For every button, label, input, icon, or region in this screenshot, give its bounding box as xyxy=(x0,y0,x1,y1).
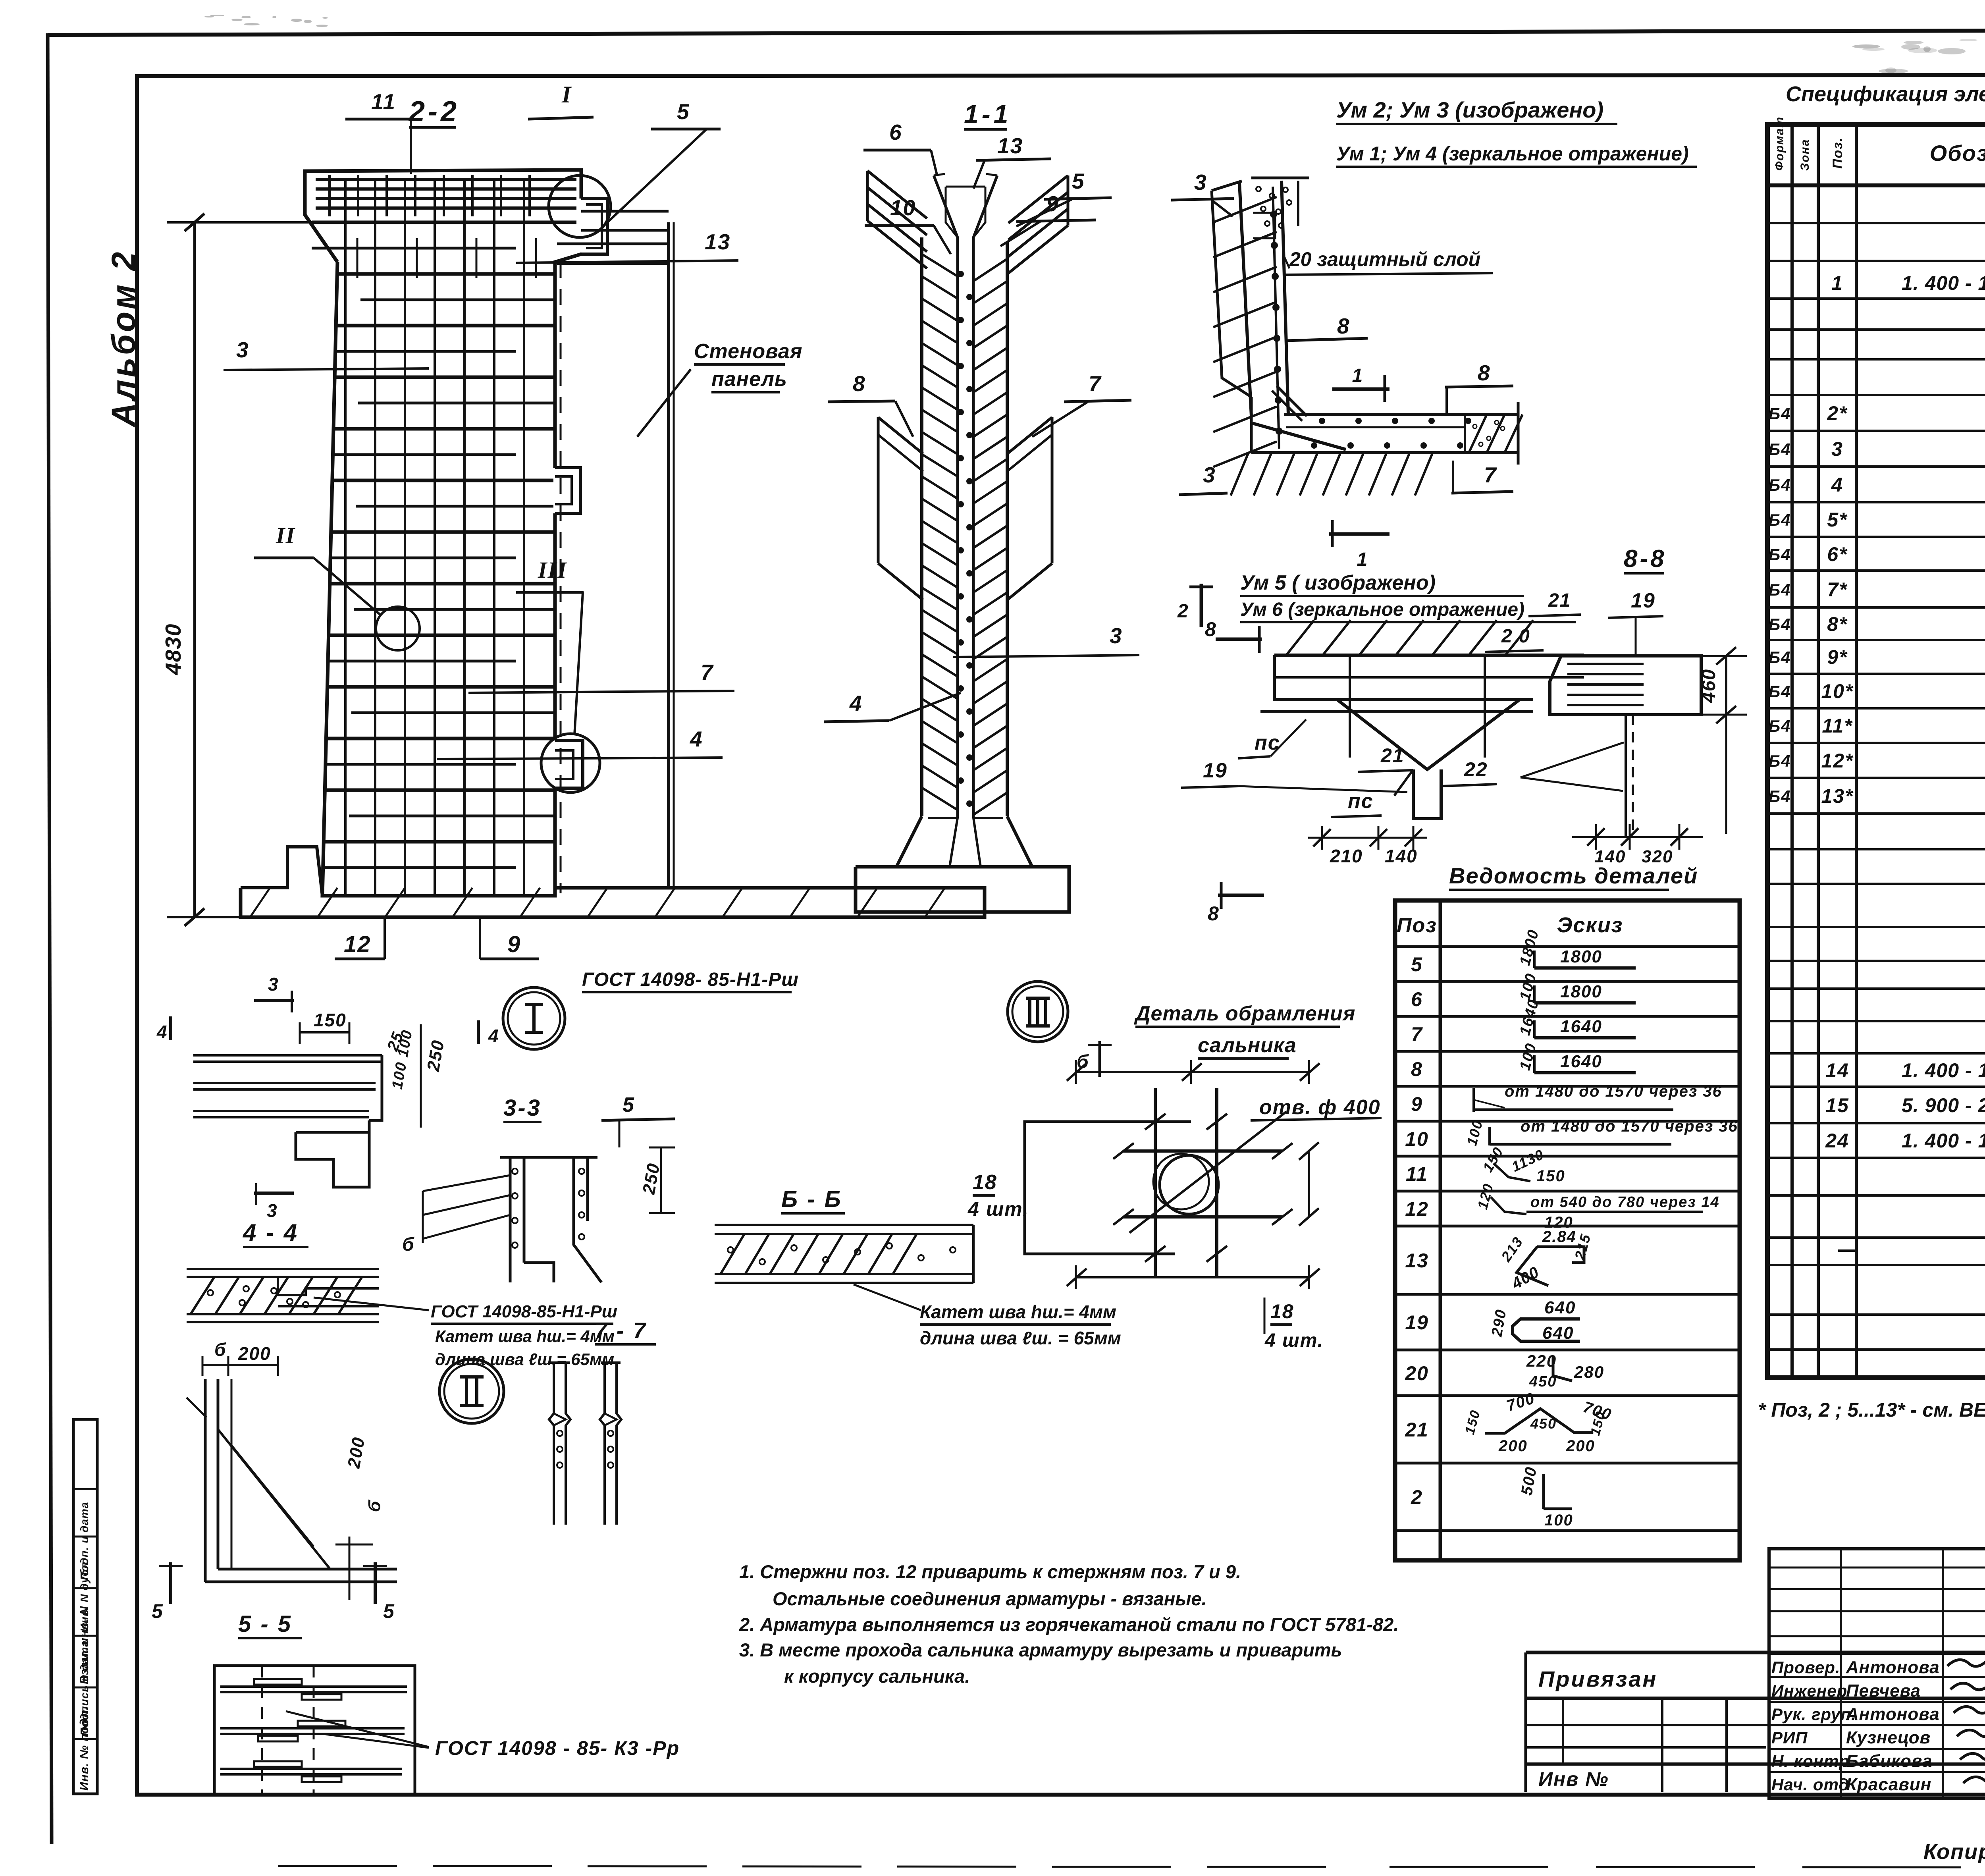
svg-text:4: 4 xyxy=(156,1022,168,1042)
svg-text:7*: 7* xyxy=(1827,578,1848,601)
vedomost table row lines xyxy=(1395,945,1740,948)
column outline 1-1 right strip xyxy=(1006,242,1009,816)
spec table header xyxy=(1767,183,1985,187)
svg-text:19: 19 xyxy=(1631,589,1655,612)
svg-text:9: 9 xyxy=(1411,1093,1423,1115)
section mark 4 left xyxy=(169,1016,172,1040)
svg-text:* Поз, 2 ; 5...13* - см. ВЕДО: * Поз, 2 ; 5...13* - см. ВЕДОМОСТЬ ДЕТАЛ… xyxy=(1758,1398,1985,1421)
svg-text:Б4: Б4 xyxy=(1768,717,1791,735)
spec table column lines xyxy=(1790,125,1794,1378)
salnik top dimension line xyxy=(1076,1071,1309,1073)
svg-text:250: 250 xyxy=(639,1161,663,1196)
hatching right strip 1-1 xyxy=(973,259,1007,281)
svg-text:640: 640 xyxy=(1544,1298,1576,1317)
salnik bottom dim line xyxy=(1076,1276,1309,1278)
svg-text:Катет шва hш.= 4мм: Катет шва hш.= 4мм xyxy=(435,1327,615,1346)
3-3 left leaders xyxy=(423,1175,510,1191)
svg-text:13: 13 xyxy=(997,133,1023,158)
3-3 dim 250 xyxy=(660,1147,662,1213)
svg-text:Н. контр.: Н. контр. xyxy=(1771,1752,1855,1770)
svg-text:Рук. груп.: Рук. груп. xyxy=(1771,1705,1856,1724)
svg-text:100: 100 xyxy=(1544,1512,1573,1529)
svg-text:450: 450 xyxy=(1529,1373,1557,1390)
salnik circles xyxy=(1160,1155,1218,1214)
svg-text:100: 100 xyxy=(1517,971,1540,1002)
svg-text:15: 15 xyxy=(1825,1094,1849,1116)
svg-text:21: 21 xyxy=(1548,590,1571,611)
svg-text:3. В месте прохода сальник: 3. В месте прохода сальника арматуру выр… xyxy=(739,1639,1342,1660)
svg-text:III: III xyxy=(538,557,567,583)
bottom leg of corner detail xyxy=(1284,413,1518,416)
svg-text:140: 140 xyxy=(1385,846,1418,866)
svg-text:150: 150 xyxy=(1462,1408,1483,1436)
svg-text:20: 20 xyxy=(1405,1362,1429,1384)
svg-text:от 1480 до 1570 через 36: от 1480 до 1570 через 36 xyxy=(1505,1083,1722,1100)
svg-text:12: 12 xyxy=(344,931,371,957)
rebar grid horizontal bars corbel xyxy=(316,178,576,181)
svg-text:Антонова: Антонова xyxy=(1846,1658,1940,1677)
svg-text:8: 8 xyxy=(853,371,866,396)
svg-text:460: 460 xyxy=(1698,669,1719,703)
7-7 drawing two posts xyxy=(549,1363,554,1525)
Um5 stem xyxy=(1413,769,1441,819)
Б-Б right plain band end xyxy=(921,1225,921,1283)
svg-text:Антонова: Антонова xyxy=(1846,1704,1940,1724)
panel chamfer wings top right of 1-1 xyxy=(1008,175,1068,223)
base slab under 2-2 xyxy=(241,888,985,917)
svg-text:6*: 6* xyxy=(1827,543,1848,565)
extra short studs top band xyxy=(357,238,358,278)
svg-text:Деталь обрамления: Деталь обрамления xyxy=(1134,1002,1355,1025)
svg-text:Б - Б: Б - Б xyxy=(781,1186,842,1212)
svg-text:19: 19 xyxy=(1203,759,1228,782)
svg-text:2 0: 2 0 xyxy=(1501,626,1530,647)
salnik cross ticks xyxy=(1145,1114,1166,1130)
svg-text:1800: 1800 xyxy=(1560,982,1602,1001)
svg-text:ГОСТ 14098- 85-Н1-Рш: ГОСТ 14098- 85-Н1-Рш xyxy=(582,969,799,990)
svg-text:отв. ф 400: отв. ф 400 xyxy=(1259,1096,1381,1119)
svg-text:пс: пс xyxy=(1348,790,1374,813)
svg-text:II: II xyxy=(276,523,296,548)
svg-text:б: б xyxy=(364,1498,385,1513)
svg-text:Стеновая: Стеновая xyxy=(694,340,802,363)
Б-Б aggregate hatch xyxy=(721,1234,744,1274)
corner rebar detail (5-5 plan) xyxy=(204,1379,207,1582)
svg-text:21: 21 xyxy=(1380,744,1405,767)
svg-text:4: 4 xyxy=(690,727,703,751)
Um5 section marks 8 xyxy=(1216,638,1262,641)
svg-text:8: 8 xyxy=(1208,902,1220,925)
svg-text:Зона: Зона xyxy=(1798,139,1812,171)
svg-text:5*: 5* xyxy=(1827,509,1848,531)
svg-text:2.84: 2.84 xyxy=(1542,1228,1576,1246)
Um5 dims 210 140 xyxy=(1321,826,1323,850)
svg-text:Инженер: Инженер xyxy=(1771,1681,1847,1700)
svg-text:500: 500 xyxy=(1518,1465,1540,1496)
svg-text:2*: 2* xyxy=(1827,402,1848,424)
svg-text:8: 8 xyxy=(1478,361,1491,385)
4-4 sandwich drawing xyxy=(187,1268,379,1270)
svg-text:1. 400 - 15. 81. 110 - 08: 1. 400 - 15. 81. 110 - 08 xyxy=(1902,1059,1985,1082)
dim 150 and ticks xyxy=(300,1031,349,1033)
section mark 1 upper xyxy=(1332,388,1389,391)
spec table outline xyxy=(1767,125,1985,1378)
right end hatched block of leg xyxy=(1464,415,1466,453)
section mark 2 near 1-1 xyxy=(1200,584,1203,627)
svg-text:120: 120 xyxy=(1474,1182,1497,1211)
svg-text:8: 8 xyxy=(1337,314,1350,338)
svg-text:Б4: Б4 xyxy=(1768,440,1791,459)
svg-text:б: б xyxy=(402,1234,415,1255)
section marks 5 xyxy=(169,1562,172,1604)
svg-text:21: 21 xyxy=(1405,1419,1429,1441)
svg-text:Нач. отд: Нач. отд xyxy=(1771,1775,1849,1794)
panel hatch diagonals xyxy=(1213,197,1277,222)
svg-text:5: 5 xyxy=(152,1600,164,1622)
svg-text:13: 13 xyxy=(705,229,730,254)
salnik diagonal leader xyxy=(1129,1112,1286,1233)
svg-text:Б4: Б4 xyxy=(1768,511,1791,529)
svg-text:Формат: Формат xyxy=(1773,116,1786,171)
svg-text:1-1: 1-1 xyxy=(964,99,1011,129)
4-4 aggregate hatch xyxy=(191,1277,214,1314)
svg-text:10: 10 xyxy=(1405,1128,1429,1150)
corner diagonal braces xyxy=(218,1429,330,1568)
svg-text:18: 18 xyxy=(973,1171,997,1194)
svg-text:4: 4 xyxy=(849,691,863,715)
svg-text:13*: 13* xyxy=(1821,785,1854,807)
base slab 1-1 xyxy=(856,867,1069,912)
bottom margin broken line xyxy=(278,1866,1350,1867)
dashed inner face line xyxy=(560,262,562,893)
4-4 right step xyxy=(278,1277,379,1295)
section mark 1 lower xyxy=(1329,532,1389,536)
circle node I on section 2-2 xyxy=(549,175,611,237)
below-leg hatch (supporting panel) xyxy=(1231,453,1248,496)
svg-text:Ведомость деталей: Ведомость деталей xyxy=(1449,863,1698,888)
outer paper border left edge xyxy=(48,33,52,1844)
svg-text:Спецификация элементов монол: Спецификация элементов монолитных участк… xyxy=(1786,82,1985,106)
svg-text:4 шт.: 4 шт. xyxy=(1264,1330,1324,1351)
svg-text:1640: 1640 xyxy=(1560,1052,1602,1071)
svg-text:Подп. и дата: Подп. и дата xyxy=(78,1502,91,1580)
detail bars top-left (gost node) xyxy=(193,1054,382,1057)
left flanking panel hatched band xyxy=(1212,181,1242,191)
wall panel joint strips xyxy=(581,210,669,213)
joint core funnel 1-1 xyxy=(934,175,958,818)
svg-text:Поз.: Поз. xyxy=(1830,137,1845,169)
stamp column left margin xyxy=(73,1419,97,1794)
svg-text:5. 900 - 2 ТМ 90 - 02: 5. 900 - 2 ТМ 90 - 02 xyxy=(1902,1094,1985,1116)
svg-text:7 - 7: 7 - 7 xyxy=(595,1318,647,1343)
svg-text:1: 1 xyxy=(1357,549,1368,570)
outer paper border top edge xyxy=(48,29,1985,35)
circle node II detail xyxy=(439,1359,504,1423)
svg-text:Ум 6 (зеркальное отражени: Ум 6 (зеркальное отражение) xyxy=(1240,599,1524,620)
side wing plate left 1-1 xyxy=(878,417,923,454)
circle node I detail xyxy=(503,987,565,1049)
svg-text:ГОСТ 14098 - 85- К3 -Рр: ГОСТ 14098 - 85- К3 -Рр xyxy=(435,1737,680,1759)
svg-text:от 540 до 780 через 14: от 540 до 780 через 14 xyxy=(1530,1194,1720,1211)
svg-text:Эскиз: Эскиз xyxy=(1557,913,1623,937)
svg-text:6: 6 xyxy=(1411,988,1423,1010)
svg-text:4830: 4830 xyxy=(161,623,185,675)
svg-text:290: 290 xyxy=(1488,1308,1510,1338)
svg-text:Б4: Б4 xyxy=(1768,476,1791,494)
Um5 inner bars xyxy=(1349,655,1351,758)
label b section near III xyxy=(1098,1041,1101,1077)
svg-text:Б4: Б4 xyxy=(1768,615,1791,634)
svg-text:ГОСТ 14098-85-Н1-Рш: ГОСТ 14098-85-Н1-Рш xyxy=(431,1302,617,1321)
8-8 box with horizontal hatch xyxy=(1550,656,1701,715)
svg-text:11*: 11* xyxy=(1822,715,1853,737)
svg-text:9*: 9* xyxy=(1827,646,1848,668)
svg-text:к корпусу сальника.: к корпусу сальника. xyxy=(784,1666,970,1687)
label 18 4sht bottom xyxy=(1264,1298,1266,1334)
svg-text:200: 200 xyxy=(344,1435,368,1470)
svg-text:1800: 1800 xyxy=(1560,947,1602,966)
svg-text:Б4: Б4 xyxy=(1768,580,1791,599)
panel chamfer wings top left of 1-1 xyxy=(867,171,927,218)
svg-text:РИП: РИП xyxy=(1771,1728,1808,1747)
privyazan box xyxy=(1526,1651,1985,1654)
Um5 funnel xyxy=(1322,698,1533,701)
foot flare 1-1 xyxy=(896,816,922,867)
foot of wall leg 2-2 xyxy=(241,847,322,896)
svg-text:4 - 4: 4 - 4 xyxy=(243,1219,299,1246)
svg-text:8-8: 8-8 xyxy=(1624,545,1667,573)
svg-text:б: б xyxy=(1077,1051,1089,1072)
svg-text:Обозначение: Обозначение xyxy=(1930,141,1985,166)
svg-text:I: I xyxy=(561,81,572,108)
svg-text:Альбом 2: Альбом 2 xyxy=(105,250,142,428)
4-4 leader to gost text xyxy=(314,1298,429,1310)
8-8 bottom dims 140 320 xyxy=(1595,824,1597,850)
svg-text:Копировал Подлевская: Копировал Подлевская xyxy=(1923,1840,1985,1864)
corner detail dims xyxy=(349,1537,351,1600)
svg-text:5: 5 xyxy=(383,1600,395,1622)
svg-text:б: б xyxy=(214,1339,226,1360)
weld assembly box (below 5-5) xyxy=(214,1666,415,1795)
Б-Б leader and weld text xyxy=(854,1284,921,1310)
svg-text:от 1480 до 1570 через 36: от 1480 до 1570 через 36 xyxy=(1521,1118,1738,1135)
keyway notch lower (node III) xyxy=(555,740,583,788)
svg-text:11: 11 xyxy=(1406,1163,1428,1185)
svg-text:2: 2 xyxy=(1411,1486,1423,1508)
svg-text:100: 100 xyxy=(1517,1041,1540,1072)
svg-text:3: 3 xyxy=(268,974,279,995)
svg-text:Красавин: Красавин xyxy=(1846,1775,1931,1794)
svg-text:3: 3 xyxy=(1110,623,1123,648)
side wing plate right 1-1 xyxy=(1007,417,1052,454)
svg-text:5 - 5: 5 - 5 xyxy=(238,1611,292,1637)
svg-text:3-3: 3-3 xyxy=(503,1095,542,1121)
svg-text:8: 8 xyxy=(1205,618,1217,640)
svg-text:4: 4 xyxy=(488,1026,499,1046)
svg-text:7: 7 xyxy=(701,660,714,684)
signature table xyxy=(1769,1549,1985,1799)
circle node III on section 2-2 xyxy=(541,734,600,792)
svg-text:3: 3 xyxy=(1194,170,1207,195)
svg-text:9: 9 xyxy=(1046,191,1059,216)
svg-text:280: 280 xyxy=(1574,1363,1604,1381)
svg-text:3: 3 xyxy=(1203,463,1216,487)
svg-text:400: 400 xyxy=(1509,1263,1543,1293)
svg-text:Певчева: Певчева xyxy=(1846,1681,1921,1701)
bottom leg inner line and stud dots xyxy=(1286,426,1465,428)
svg-text:9: 9 xyxy=(507,931,521,957)
bent corner bar diagonal xyxy=(1253,423,1346,449)
svg-text:1. Стержни поз. 12 приварит: 1. Стержни поз. 12 приварить к стержням … xyxy=(739,1561,1241,1582)
svg-text:200: 200 xyxy=(1498,1437,1528,1455)
svg-text:250: 250 xyxy=(423,1038,448,1073)
svg-text:2-2: 2-2 xyxy=(408,96,460,127)
svg-text:150: 150 xyxy=(1536,1167,1565,1185)
svg-text:Б4: Б4 xyxy=(1768,404,1791,423)
svg-text:Б4: Б4 xyxy=(1768,545,1791,564)
svg-text:Б4: Б4 xyxy=(1768,648,1791,667)
svg-text:24: 24 xyxy=(1825,1130,1849,1152)
svg-text:длина шва ℓш. = 65мм: длина шва ℓш. = 65мм xyxy=(920,1328,1121,1348)
svg-text:1640: 1640 xyxy=(1560,1017,1602,1036)
8-8 stem dashed xyxy=(1625,715,1627,838)
svg-text:4: 4 xyxy=(1831,474,1843,496)
svg-text:3: 3 xyxy=(236,337,249,362)
svg-text:450: 450 xyxy=(1530,1415,1557,1432)
rebar grid vertical bars xyxy=(344,179,347,895)
svg-text:3: 3 xyxy=(267,1200,278,1221)
svg-text:210: 210 xyxy=(1330,846,1363,866)
svg-text:Б4: Б4 xyxy=(1768,752,1791,770)
svg-text:12*: 12* xyxy=(1821,750,1854,772)
salnik right dim xyxy=(1308,1151,1310,1217)
svg-text:Остальные соединения арматур: Остальные соединения арматуры - вязаные. xyxy=(773,1588,1207,1609)
step outline of node xyxy=(296,1132,369,1187)
svg-text:7: 7 xyxy=(1484,463,1497,487)
rebar grid horizontal bars xyxy=(312,221,576,224)
corner chamfer double diagonal xyxy=(1277,386,1307,416)
corbel short studs xyxy=(328,175,331,216)
8-8 leader 22 xyxy=(1521,742,1624,777)
corner wall detail vertical leg outline xyxy=(1239,183,1251,416)
svg-text:Ум 2; Ум 3 (изображено): Ум 2; Ум 3 (изображено) xyxy=(1336,97,1603,122)
svg-text:сальника: сальника xyxy=(1198,1034,1297,1057)
svg-text:2: 2 xyxy=(1177,601,1189,622)
Um5 top band xyxy=(1274,654,1584,657)
3-3 drawing xyxy=(509,1157,512,1282)
spec table row lines xyxy=(1767,222,1985,224)
svg-text:18: 18 xyxy=(1270,1300,1294,1323)
svg-text:11: 11 xyxy=(371,89,396,114)
svg-text:8: 8 xyxy=(1411,1058,1423,1080)
svg-text:22: 22 xyxy=(1464,758,1488,781)
svg-text:200: 200 xyxy=(1566,1437,1595,1455)
svg-text:Провер.: Провер. xyxy=(1771,1658,1840,1677)
svg-text:4 шт.: 4 шт. xyxy=(967,1198,1029,1220)
circle node III detail xyxy=(1008,981,1068,1042)
vertical leg inner rebar line with studs xyxy=(1273,187,1279,449)
svg-text:5: 5 xyxy=(622,1093,635,1116)
salnik vertical bars xyxy=(1154,1088,1157,1276)
svg-text:13: 13 xyxy=(1405,1249,1429,1272)
svg-text:2. Арматура выполняется из: 2. Арматура выполняется из горячекатаной… xyxy=(739,1614,1399,1635)
svg-text:200: 200 xyxy=(238,1343,271,1364)
dim line 4830 left of section 2-2 xyxy=(193,221,196,917)
svg-text:5: 5 xyxy=(1411,953,1423,976)
svg-text:5: 5 xyxy=(677,99,690,124)
signatures squiggles xyxy=(1947,1657,1985,1783)
column outline 1-1 left strip xyxy=(920,237,923,816)
wall panel face lines right of 2-2 xyxy=(667,222,670,888)
svg-text:3: 3 xyxy=(1831,438,1843,460)
svg-text:Кузнецов: Кузнецов xyxy=(1846,1728,1931,1747)
svg-text:7: 7 xyxy=(1089,371,1102,396)
top cap with concrete dots xyxy=(1251,177,1309,179)
svg-text:Ум 1; Ум 4 (зеркальное отражен: Ум 1; Ум 4 (зеркальное отражение) xyxy=(1336,143,1689,165)
svg-text:панель: панель xyxy=(711,368,787,391)
svg-text:Ум 5 ( изображено): Ум 5 ( изображено) xyxy=(1240,571,1436,594)
svg-text:Инв №: Инв № xyxy=(1538,1768,1609,1790)
wall leg outline section 2-2 xyxy=(305,170,581,262)
svg-text:640: 640 xyxy=(1542,1323,1574,1343)
svg-text:Привязан: Привязан xyxy=(1538,1666,1657,1691)
salnik outline partial square xyxy=(1025,1122,1191,1254)
Um5 hatch top left xyxy=(1286,620,1314,655)
vedomost table outline xyxy=(1395,900,1740,1560)
top embed channel detail (node I) xyxy=(581,199,607,254)
hatching left strip 1-1 xyxy=(922,254,958,276)
svg-text:1: 1 xyxy=(1831,272,1843,294)
svg-text:1. 400 - 15. 81. 210 - 16: 1. 400 - 15. 81. 210 - 16 xyxy=(1902,272,1985,294)
svg-text:19: 19 xyxy=(1405,1311,1429,1334)
svg-text:7: 7 xyxy=(1411,1023,1423,1045)
svg-text:1: 1 xyxy=(1352,365,1364,386)
svg-text:Б4: Б4 xyxy=(1768,787,1791,806)
svg-text:6: 6 xyxy=(889,120,902,145)
svg-text:1. 400 - 15. В1. 150 - 2.9: 1. 400 - 15. В1. 150 - 2.9 xyxy=(1902,1130,1985,1152)
svg-text:10: 10 xyxy=(890,195,916,220)
svg-text:8*: 8* xyxy=(1827,613,1848,635)
salnik horizontal bars xyxy=(1124,1149,1282,1153)
joint core dots xyxy=(958,272,963,276)
svg-text:Поз: Поз xyxy=(1397,914,1437,937)
slab hatch ticks xyxy=(250,888,270,917)
vedomost sketches xyxy=(1533,951,1536,968)
svg-text:12: 12 xyxy=(1405,1198,1429,1220)
gost callout K3-Rr xyxy=(286,1711,429,1747)
svg-text:10*: 10* xyxy=(1821,680,1854,702)
section mark 3 top xyxy=(254,999,294,1002)
svg-text:5: 5 xyxy=(1072,169,1085,193)
circle node II on rebar grid xyxy=(376,607,420,650)
svg-text:Б4: Б4 xyxy=(1768,682,1791,701)
svg-text:Бабикова: Бабикова xyxy=(1846,1751,1932,1771)
svg-text:Катет шва hш.= 4мм: Катет шва hш.= 4мм xyxy=(920,1301,1116,1322)
8-8 dim 460 xyxy=(1725,656,1727,715)
svg-text:20 защитный слой: 20 защитный слой xyxy=(1289,248,1480,270)
svg-text:700: 700 xyxy=(1504,1389,1537,1415)
svg-text:14: 14 xyxy=(1825,1059,1849,1082)
keyway notch upper xyxy=(555,468,580,513)
svg-text:150: 150 xyxy=(314,1010,347,1030)
svg-text:213: 213 xyxy=(1497,1234,1526,1265)
